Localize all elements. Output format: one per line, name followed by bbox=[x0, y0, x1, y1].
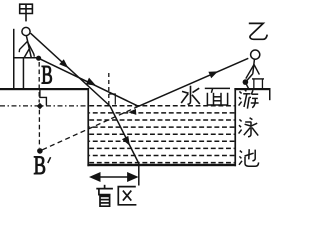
water dash row 4 bbox=[89, 126, 234, 128]
person 甲: body bbox=[26, 36, 29, 49]
point B dot bbox=[36, 56, 41, 61]
label 甲 character bbox=[20, 4, 33, 21]
person 乙: thigh bbox=[246, 74, 253, 82]
label 面 character bbox=[205, 88, 230, 105]
point B' dot bbox=[37, 148, 43, 154]
dashed vertical B to waterline bbox=[38, 62, 40, 103]
water dash row 6 bbox=[89, 140, 234, 142]
water dash row 9 bbox=[89, 162, 234, 164]
pool right wall bbox=[234, 88, 236, 166]
platform railing post bbox=[13, 29, 15, 90]
svg-text:B: B bbox=[41, 61, 53, 90]
person 甲: left leg bbox=[24, 49, 29, 58]
person 乙: body bbox=[253, 59, 255, 73]
label 盲 character bbox=[96, 185, 113, 206]
arrowhead on reflected ray bbox=[208, 71, 218, 78]
svg-text:B: B bbox=[34, 151, 47, 180]
water dash row 3 bbox=[89, 119, 234, 121]
pool bottom bbox=[87, 164, 236, 166]
water surface dash row 1 bbox=[89, 105, 234, 107]
dashed virtual ray from B' to reflection point bbox=[42, 106, 138, 150]
steps at left pool edge bbox=[40, 90, 47, 106]
ray S2: from B to reflection point bbox=[41, 59, 139, 106]
water dash row 2 bbox=[89, 112, 234, 114]
water dash row 5 bbox=[89, 133, 234, 135]
blind zone double arrow bbox=[93, 176, 136, 178]
stool leg 2 bbox=[262, 79, 263, 89]
diamond marker on waterline below B bbox=[37, 103, 43, 110]
person 甲: left arm bbox=[19, 42, 27, 53]
platform leg bbox=[23, 58, 25, 89]
dash-dot waterline extension on land bbox=[0, 105, 88, 107]
label 水 character bbox=[181, 86, 200, 105]
right angle mark at normal bbox=[109, 94, 116, 105]
dashed normal at refraction point bbox=[108, 73, 110, 105]
prime mark of B' bbox=[48, 157, 51, 163]
tick below pool bottom at blind zone edge bbox=[138, 164, 140, 186]
arrowhead on ray S2 bbox=[86, 78, 96, 86]
label 池 character bbox=[239, 149, 259, 166]
label 乙 character bbox=[249, 23, 267, 39]
reflected ray to 乙's eye bbox=[139, 58, 249, 106]
stool seat bbox=[252, 78, 264, 79]
person 甲: head bbox=[22, 27, 30, 35]
stool leg 1 bbox=[253, 79, 254, 89]
person 乙: lower leg bbox=[246, 83, 249, 89]
refracted ray underwater bbox=[110, 106, 139, 164]
right deck edge vertical bbox=[269, 88, 271, 100]
person 乙: knee dot bbox=[243, 79, 249, 85]
label 区 character bbox=[118, 187, 136, 205]
person 乙: arm back bbox=[254, 65, 259, 75]
arrowhead on refracted ray bbox=[122, 136, 130, 146]
arrowhead on ray S1 bbox=[59, 59, 68, 68]
water dash row 8 bbox=[89, 155, 234, 157]
person 乙: arm front bbox=[246, 65, 254, 79]
label 泳 character bbox=[239, 118, 259, 137]
arrowhead on virtual ray pointing to B' bbox=[128, 109, 136, 115]
water dash row 7 bbox=[89, 147, 234, 149]
ground line left of pool bbox=[0, 88, 89, 90]
person 甲: right leg bbox=[29, 49, 31, 58]
pool left wall bbox=[87, 88, 89, 166]
person 甲: right arm bbox=[27, 42, 34, 57]
right deck line bbox=[234, 88, 270, 90]
dashed vertical waterline to B' bbox=[38, 110, 40, 148]
platform top board bbox=[13, 57, 37, 59]
ray S1: from 甲's head to water surface bbox=[31, 33, 111, 106]
label 游 character bbox=[239, 90, 259, 109]
person 乙: head bbox=[251, 50, 260, 59]
